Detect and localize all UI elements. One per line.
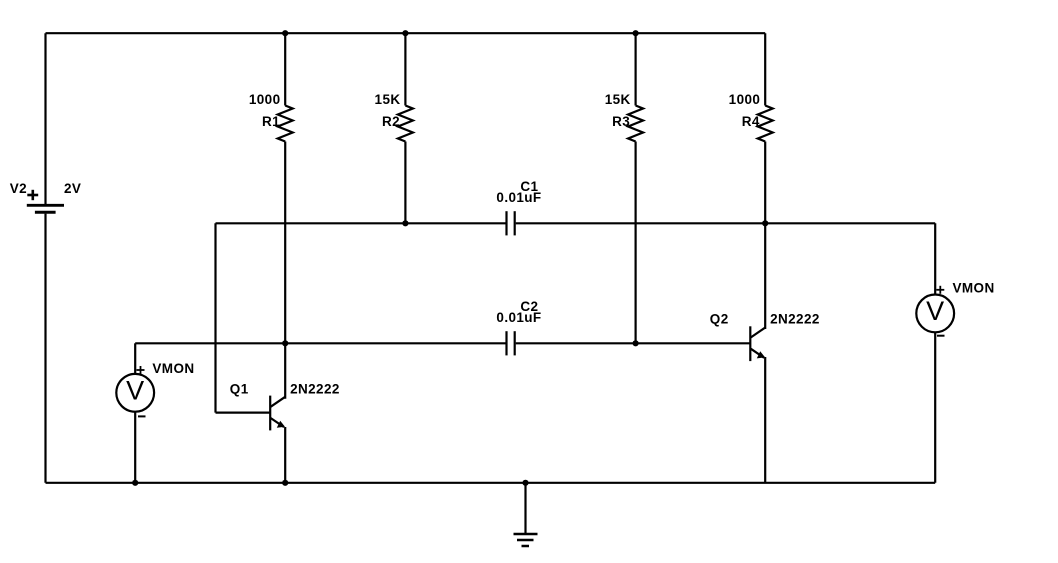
svg-text:2N2222: 2N2222 bbox=[770, 311, 820, 326]
svg-text:VMON: VMON bbox=[152, 361, 194, 376]
svg-text:VMON: VMON bbox=[953, 281, 995, 296]
svg-text:15K: 15K bbox=[605, 92, 631, 107]
svg-text:Q2: Q2 bbox=[710, 311, 729, 326]
svg-text:V: V bbox=[126, 376, 144, 406]
svg-text:0.01uF: 0.01uF bbox=[496, 190, 541, 205]
svg-text:0.01uF: 0.01uF bbox=[496, 310, 541, 325]
svg-text:V: V bbox=[926, 296, 944, 326]
svg-text:V2: V2 bbox=[10, 181, 27, 196]
svg-text:2V: 2V bbox=[64, 181, 81, 196]
svg-text:R1: R1 bbox=[262, 114, 280, 129]
svg-text:Q1: Q1 bbox=[230, 381, 249, 396]
svg-text:1000: 1000 bbox=[249, 92, 281, 107]
svg-text:1000: 1000 bbox=[729, 92, 761, 107]
svg-text:2N2222: 2N2222 bbox=[290, 381, 340, 396]
svg-text:R3: R3 bbox=[612, 114, 630, 129]
svg-text:15K: 15K bbox=[375, 92, 401, 107]
svg-text:R4: R4 bbox=[742, 114, 760, 129]
svg-text:R2: R2 bbox=[382, 114, 400, 129]
